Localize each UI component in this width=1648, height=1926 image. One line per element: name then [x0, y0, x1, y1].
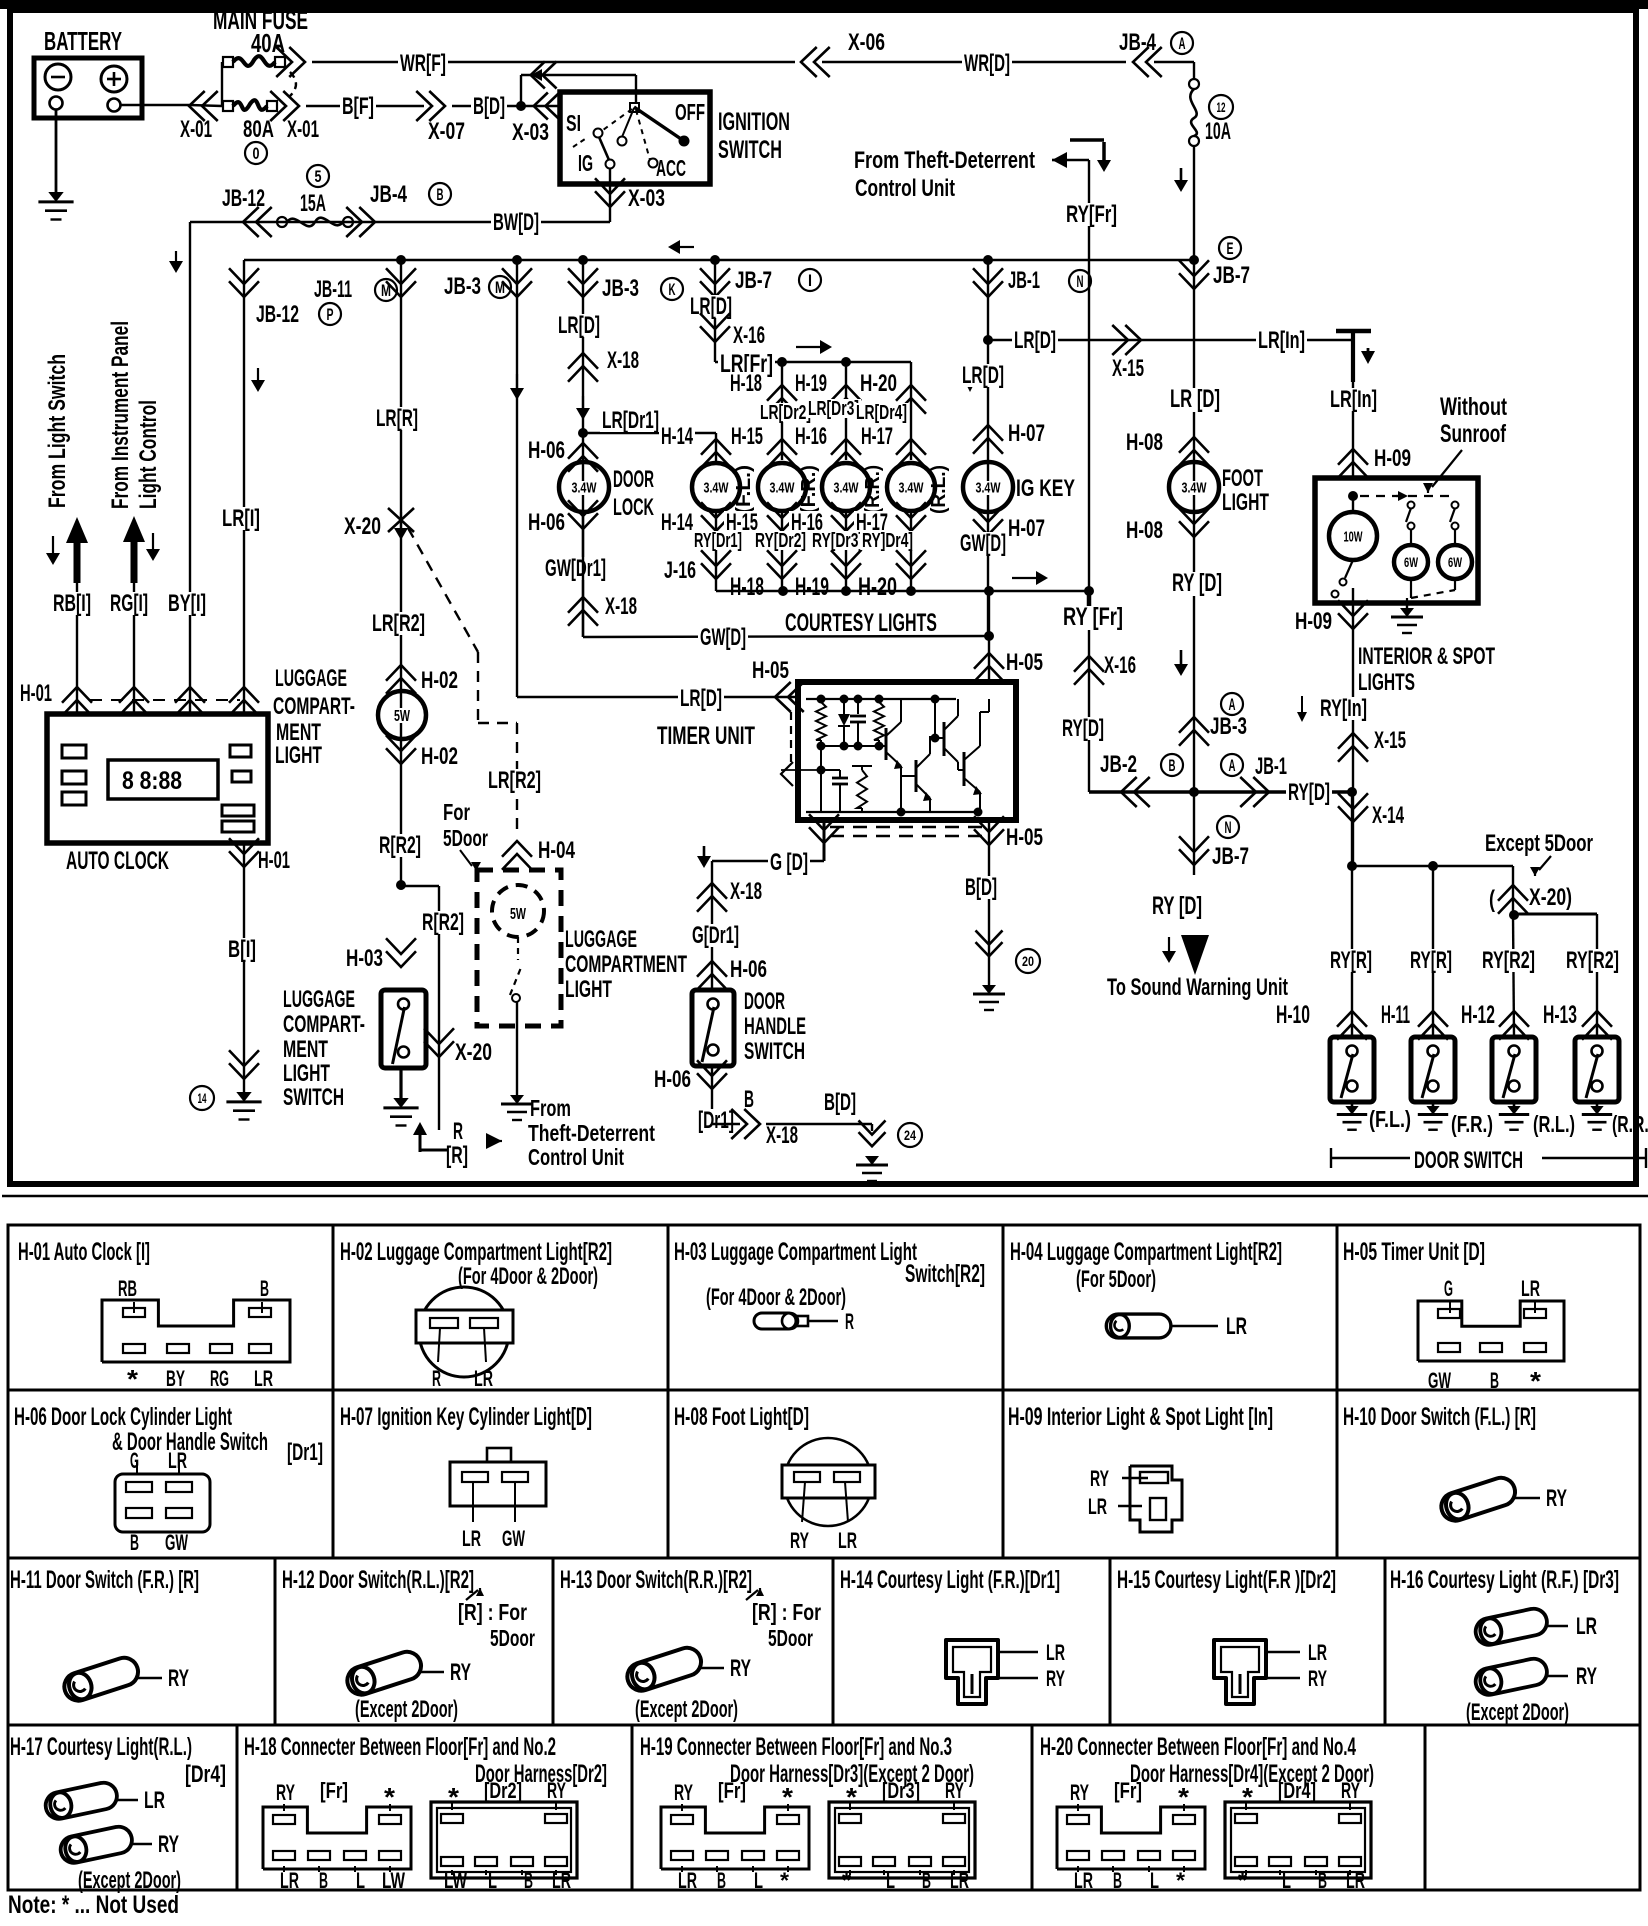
door switch RR [1575, 1037, 1619, 1102]
svg-text:LR: LR [1088, 1494, 1107, 1519]
svg-text:5Door: 5Door [443, 825, 488, 851]
wire WR[D] [822, 61, 1126, 63]
svg-text:RY [Fr]: RY [Fr] [1063, 603, 1123, 631]
svg-text:COMPART-: COMPART- [283, 1011, 365, 1038]
svg-text:G [D]: G [D] [770, 849, 808, 876]
svg-text:0: 0 [253, 144, 260, 163]
connector JB-7 I chevron [700, 281, 730, 297]
svg-text:LOCK: LOCK [613, 494, 654, 521]
svg-text:LW: LW [382, 1868, 405, 1893]
svg-text:RY: RY [276, 1780, 295, 1805]
svg-text:GW: GW [502, 1526, 525, 1551]
labels RB RG BY [51, 592, 93, 615]
fuse 40A [223, 57, 233, 67]
connector X-15 chevron [1338, 733, 1368, 749]
bulb IG KEY 3.4W [963, 462, 1013, 512]
svg-text:*: * [448, 1782, 460, 1812]
connector H-08 chevron [1179, 437, 1209, 453]
svg-text:H-13: H-13 [1543, 1001, 1577, 1029]
svg-text:BW[D]: BW[D] [493, 209, 539, 236]
svg-text:H-16: H-16 [795, 423, 827, 450]
svg-text:H-05 Timer Unit [D]: H-05 Timer Unit [D] [1343, 1238, 1485, 1266]
svg-text:[Fr]: [Fr] [1114, 1778, 1142, 1803]
svg-text:GW: GW [165, 1530, 188, 1555]
svg-text:H-08 Foot Light[D]: H-08 Foot Light[D] [674, 1403, 809, 1431]
wires down to switches [1351, 866, 1353, 1037]
wire hook into ignition top [520, 75, 522, 106]
svg-text:B: B [524, 1868, 533, 1893]
svg-text:LR: LR [950, 1868, 969, 1893]
wire LR[D] to timer [517, 696, 770, 698]
svg-text:I: I [808, 271, 812, 290]
bulb 5W dashed [492, 885, 544, 937]
svg-text:COURTESY LIGHTS: COURTESY LIGHTS [785, 609, 937, 637]
wire BW[D] [190, 221, 610, 223]
svg-text:LR: LR [1308, 1640, 1327, 1665]
svg-text:LIGHT: LIGHT [275, 742, 322, 769]
svg-text:*: * [384, 1782, 396, 1812]
svg-text:RY: RY [168, 1665, 189, 1692]
svg-text:LR[D]: LR[D] [680, 685, 722, 712]
ground auto clock [236, 1092, 251, 1102]
svg-text:LW: LW [444, 1868, 467, 1893]
connector X-18 chevron right [712, 1123, 740, 1125]
svg-text:RY: RY [547, 1778, 566, 1803]
svg-text:B[D]: B[D] [473, 93, 505, 120]
svg-text:LR[Dr1]: LR[Dr1] [602, 407, 659, 434]
svg-text:COMPARTMENT: COMPARTMENT [565, 951, 687, 978]
connector H-01 bottom chevron [229, 851, 259, 867]
svg-text:40A: 40A [251, 28, 285, 58]
svg-text:24: 24 [904, 1127, 916, 1143]
svg-text:H-02: H-02 [421, 667, 458, 694]
svg-text:M: M [495, 278, 505, 297]
svg-text:L: L [1282, 1868, 1291, 1893]
connector H-07 chevron down [973, 519, 1003, 535]
connector JB-1 N chevron [973, 281, 1003, 297]
svg-text:14: 14 [198, 1090, 207, 1106]
svg-text:RB[I]: RB[I] [53, 590, 91, 617]
svg-text:Switch[R2]: Switch[R2] [905, 1260, 985, 1288]
connector X-01 upper chevron [289, 47, 305, 77]
svg-text:B: B [1169, 756, 1176, 775]
svg-text:X-03: X-03 [512, 119, 549, 146]
svg-text:*: * [1176, 1868, 1185, 1893]
auto clock U-CLK [47, 714, 268, 843]
svg-text:From Instrument Panel: From Instrument Panel [107, 321, 134, 509]
arrow feed up RB [66, 517, 88, 543]
svg-text:3.4W: 3.4W [572, 479, 598, 496]
svg-text:H-09: H-09 [1295, 608, 1332, 635]
wire LR[D] to X-15 [988, 339, 1352, 341]
svg-text:JB-3: JB-3 [1210, 713, 1247, 740]
svg-text:COMPART-: COMPART- [273, 693, 355, 720]
svg-text:H-05: H-05 [1006, 824, 1043, 851]
svg-text:H-19: H-19 [795, 370, 827, 397]
bulb foot light 3.4W [1169, 462, 1219, 512]
svg-text:SWITCH: SWITCH [744, 1038, 805, 1065]
connector X-16 chevron [700, 326, 730, 342]
svg-text:A: A [1229, 756, 1236, 775]
svg-text:*: * [1178, 1782, 1190, 1812]
svg-text:LR[Dr2]: LR[Dr2] [760, 402, 811, 424]
svg-text:H-05: H-05 [752, 657, 789, 684]
svg-text:H-20: H-20 [858, 573, 897, 601]
svg-text:LR: LR [1074, 1868, 1093, 1893]
svg-text:LR: LR [144, 1787, 165, 1814]
connectors H-15 H-16 H-17 chevrons [701, 439, 731, 455]
bulb courtesy FR [758, 463, 806, 511]
wire LR[Dr1] branch [583, 432, 716, 434]
svg-text:LR: LR [168, 1448, 187, 1473]
connector H-02 chevron down [386, 748, 416, 764]
wire GW down [582, 512, 584, 637]
svg-text:Sunroof: Sunroof [1440, 420, 1506, 448]
circled E [1219, 237, 1241, 259]
connectors H-18 H-19 H-20 chevrons top [767, 385, 797, 401]
arrow left floating [679, 246, 694, 248]
svg-text:H-07: H-07 [1008, 515, 1045, 542]
svg-text:[R] : For: [R] : For [458, 1599, 527, 1625]
svg-text:To Sound Warning Unit: To Sound Warning Unit [1107, 974, 1288, 1001]
svg-text:GW[D]: GW[D] [960, 530, 1006, 557]
svg-text:*: * [1530, 1366, 1542, 1396]
H-03 inline switch icon [754, 1313, 808, 1329]
svg-text:Without: Without [1440, 393, 1507, 421]
svg-text:B[D]: B[D] [965, 874, 997, 901]
svg-text:R: R [432, 1366, 441, 1391]
svg-text:H-06 Door Lock Cylinder Light: H-06 Door Lock Cylinder Light [14, 1403, 232, 1431]
svg-text:G: G [1444, 1276, 1453, 1301]
chevrons J-16 H-18 H-19 H-20 [701, 563, 731, 579]
svg-text:AUTO CLOCK: AUTO CLOCK [66, 847, 169, 875]
wire to 4th door switch [1514, 913, 1597, 916]
border frame [10, 10, 1636, 1184]
wire below door handle switch [711, 1066, 713, 1125]
svg-text:DOOR SWITCH: DOOR SWITCH [1414, 1147, 1523, 1174]
svg-text:[Dr2]: [Dr2] [484, 1778, 522, 1803]
svg-text:J-16: J-16 [664, 557, 696, 584]
internal dashed rail [1348, 491, 1358, 501]
connectors H-10..H-13 chevrons [1337, 1011, 1367, 1027]
svg-text:Light Control: Light Control [135, 400, 162, 509]
svg-text:[Fr]: [Fr] [320, 1778, 348, 1803]
svg-text:A: A [1179, 34, 1186, 53]
wire JB-12 drop [189, 222, 191, 714]
ground battery [48, 192, 63, 202]
svg-text:Theft-Deterrent: Theft-Deterrent [528, 1120, 655, 1146]
svg-text:RY: RY [1308, 1666, 1327, 1691]
svg-text:RY: RY [1576, 1663, 1597, 1690]
wire branch to theft unit [401, 885, 439, 888]
svg-text:B: B [130, 1530, 139, 1555]
svg-text:RY[R]: RY[R] [1330, 947, 1372, 974]
label LR[R2] [370, 612, 427, 635]
svg-text:RY[Dr1]: RY[Dr1] [694, 530, 742, 552]
svg-text:H-14: H-14 [661, 509, 693, 536]
connector X-16 chevron [1074, 656, 1104, 672]
bulb courtesy FL [692, 463, 740, 511]
wire WR[F] [312, 61, 795, 63]
svg-text:*: * [1242, 1782, 1254, 1812]
DOOR SWITCH bracket [1331, 1157, 1410, 1159]
svg-text:(Except 2Door): (Except 2Door) [355, 1696, 458, 1723]
arrow under JB-12 [175, 251, 177, 262]
svg-text:N: N [1225, 818, 1232, 837]
svg-text:X-20): X-20) [1529, 884, 1572, 911]
svg-text:(Except 2Door): (Except 2Door) [78, 1867, 181, 1894]
svg-text:RY [D]: RY [D] [1152, 892, 1202, 920]
svg-text:3.4W: 3.4W [770, 479, 796, 496]
svg-text:H-01 Auto Clock [I]: H-01 Auto Clock [I] [18, 1238, 150, 1266]
svg-text:B[I]: B[I] [228, 936, 256, 963]
timer left input chevron [770, 696, 798, 698]
svg-text:(F.R.): (F.R.) [1451, 1111, 1493, 1137]
svg-text:H-10: H-10 [1276, 1001, 1310, 1029]
svg-text:SWITCH: SWITCH [283, 1084, 344, 1111]
svg-text:(Except 2Door): (Except 2Door) [1466, 1699, 1569, 1726]
luggage compartment light switch [381, 990, 426, 1068]
svg-text:JB-11: JB-11 [314, 276, 352, 303]
svg-text:From: From [530, 1095, 571, 1121]
svg-text:LR: LR [280, 1868, 299, 1893]
svg-text:X-07: X-07 [428, 118, 465, 145]
ground luggage switch [393, 1098, 408, 1108]
svg-text:80A: 80A [243, 116, 274, 143]
svg-text:JB-4: JB-4 [1119, 29, 1156, 56]
svg-text:H-12: H-12 [1461, 1001, 1495, 1029]
svg-text:L: L [886, 1868, 895, 1893]
svg-text:RY[R2]: RY[R2] [1566, 947, 1619, 974]
svg-text:(R.L.): (R.L.) [1533, 1111, 1575, 1137]
svg-text:X-01: X-01 [180, 116, 212, 143]
svg-text:*: * [1238, 1868, 1247, 1893]
svg-text:X-16: X-16 [733, 322, 765, 349]
svg-text:3.4W: 3.4W [704, 479, 730, 496]
svg-text:LIGHT: LIGHT [283, 1060, 330, 1087]
svg-text:(For 4Door & 2Door): (For 4Door & 2Door) [706, 1284, 846, 1311]
svg-text:5Door: 5Door [768, 1625, 813, 1651]
connector H-04 chevron [502, 841, 532, 857]
fuse 10A [1189, 79, 1199, 89]
svg-text:12: 12 [1217, 99, 1226, 115]
dashed branch to 5door light [408, 528, 478, 652]
svg-text:JB-2: JB-2 [1100, 751, 1137, 778]
svg-text:[Fr]: [Fr] [718, 1778, 746, 1803]
chevron + ground [976, 942, 1003, 956]
svg-text:JB-12: JB-12 [256, 301, 299, 328]
wire door switch bus [1351, 792, 1353, 866]
svg-text:TIMER UNIT: TIMER UNIT [657, 722, 755, 750]
svg-text:LUGGAGE: LUGGAGE [275, 665, 347, 692]
svg-text:H-04: H-04 [538, 837, 575, 864]
svg-text:JB-7: JB-7 [1213, 262, 1250, 289]
connector X-18 chevron down [568, 597, 598, 613]
connector JB-1 A chevron [1253, 777, 1269, 807]
connector JB-3 K chevron [568, 281, 598, 297]
connector H-02 chevron up [386, 665, 416, 681]
timer internals [806, 698, 956, 700]
svg-text:L: L [754, 1868, 763, 1893]
svg-text:RY[D]: RY[D] [1288, 779, 1330, 806]
bulb courtesy RL [887, 463, 935, 511]
svg-text:H-05: H-05 [1006, 649, 1043, 676]
svg-text:X-20: X-20 [344, 513, 381, 540]
svg-text:WR[D]: WR[D] [964, 50, 1010, 77]
svg-text:H-07 Ignition Key Cylinder Lig: H-07 Ignition Key Cylinder Light[D] [340, 1403, 592, 1431]
svg-text:LR: LR [474, 1366, 493, 1391]
wire JB-11 branch [400, 260, 402, 885]
svg-text:6W: 6W [1448, 554, 1463, 570]
svg-text:[R]: [R] [446, 1142, 468, 1169]
connector X-01 lower left chevron [189, 91, 205, 121]
svg-text:H-04 Luggage Compartment Light: H-04 Luggage Compartment Light[R2] [1010, 1238, 1282, 1266]
svg-text:(R.R.): (R.R.) [1612, 1111, 1648, 1137]
svg-text:LR[In]: LR[In] [1330, 386, 1377, 413]
svg-text:RY: RY [790, 1528, 809, 1553]
wire battery negative to ground [55, 109, 58, 192]
svg-text:B: B [717, 1868, 726, 1893]
svg-text:(For 5Door): (For 5Door) [1076, 1266, 1156, 1293]
connector X-03 chevrons [531, 62, 545, 89]
svg-text:DOOR: DOOR [613, 466, 654, 493]
svg-text:H-09 Interior Light & Spot Lig: H-09 Interior Light & Spot Light [In] [1008, 1403, 1273, 1431]
svg-text:Except 5Door: Except 5Door [1485, 830, 1593, 857]
svg-text:B: B [437, 185, 444, 204]
node B[D] junction [516, 101, 526, 111]
wire main bus LR [244, 259, 1194, 262]
svg-text:(R.L.): (R.L.) [928, 465, 950, 514]
arrow feed up RG [123, 516, 145, 542]
svg-text:8 8:88: 8 8:88 [122, 767, 182, 795]
svg-text:LR: LR [1521, 1276, 1540, 1301]
connector X-03 bottom chevron [595, 191, 625, 207]
connector H-07 chevron [973, 425, 1003, 441]
node bus junctions [396, 255, 406, 265]
svg-text:RY]Dr4]: RY]Dr4] [862, 530, 913, 552]
svg-text:GW[D]: GW[D] [700, 624, 746, 651]
connector H-06 chevron down [568, 513, 598, 529]
ignition contacts [630, 103, 639, 112]
svg-text:R: R [453, 1118, 463, 1145]
svg-text:H-14 Courtesy Light (F.R.)[Dr1: H-14 Courtesy Light (F.R.)[Dr1] [840, 1566, 1060, 1594]
svg-text:LIGHTS: LIGHTS [1358, 669, 1415, 696]
wire JB-3 M branch [516, 260, 518, 697]
svg-text:LR: LR [1576, 1613, 1597, 1640]
svg-text:M: M [381, 281, 391, 300]
svg-text:R: R [845, 1309, 854, 1334]
svg-text:IGNITION: IGNITION [718, 108, 790, 136]
svg-text:B: B [1318, 1868, 1327, 1893]
svg-text:LR: LR [838, 1528, 857, 1553]
svg-text:RY: RY [674, 1780, 693, 1805]
connector H-05 chevron left [775, 682, 791, 712]
svg-text:H-14: H-14 [661, 423, 693, 450]
connector JB-3 M chevron [502, 281, 532, 297]
svg-text:X-20: X-20 [455, 1039, 492, 1066]
svg-text:(Except 2Door): (Except 2Door) [635, 1696, 738, 1723]
svg-text:3.4W: 3.4W [834, 479, 860, 496]
svg-text:B: B [1113, 1868, 1122, 1893]
svg-text:B: B [1490, 1368, 1499, 1393]
wire JB-7 I branch [714, 260, 716, 362]
svg-text:DOOR: DOOR [744, 988, 785, 1015]
svg-text:15A: 15A [300, 190, 326, 217]
svg-text:H-11 Door Switch (F.R.) [R]: H-11 Door Switch (F.R.) [R] [10, 1566, 199, 1594]
svg-text:*: * [846, 1782, 858, 1812]
bulb 10W [1352, 496, 1354, 512]
connector H-06 chevron [568, 443, 598, 459]
svg-text:RY[In]: RY[In] [1320, 695, 1367, 722]
wire JB-3 K branch [582, 260, 584, 637]
svg-text:X-06: X-06 [848, 29, 885, 56]
svg-text:H-06: H-06 [730, 956, 767, 983]
svg-text:[Dr3]: [Dr3] [882, 1778, 920, 1803]
svg-text:LIGHT: LIGHT [565, 976, 612, 1003]
connector X-15 chevron [1125, 325, 1141, 355]
svg-text:(: ( [1489, 886, 1495, 913]
svg-text:H-06: H-06 [654, 1066, 691, 1093]
connector H-05 chevron below timer [974, 829, 1004, 845]
wire to 40A fuse [221, 62, 223, 106]
svg-text:H-03 Luggage Compartment Light: H-03 Luggage Compartment Light [674, 1238, 917, 1266]
wire G[D] down to door handle switch [711, 861, 713, 990]
connector JB-7 chevron [1179, 273, 1209, 289]
wire LR[In] corner [1336, 329, 1371, 334]
connector X-18 chevron [568, 353, 598, 369]
arrow stub down right [152, 533, 154, 550]
switch + bulb 6W left [1408, 502, 1415, 509]
svg-text:X-18: X-18 [730, 878, 762, 905]
bulb 5W luggage [378, 691, 426, 739]
svg-text:RY[Dr2]: RY[Dr2] [755, 530, 806, 552]
connector X-14 chevron [1338, 806, 1368, 822]
connector JB-12 P chevron [229, 281, 259, 297]
svg-text:X-18: X-18 [605, 593, 637, 620]
svg-text:H-18 Connecter Between Floor[F: H-18 Connecter Between Floor[Fr] and No.… [244, 1733, 556, 1761]
svg-text:Control Unit: Control Unit [528, 1144, 624, 1170]
svg-text:LR: LR [462, 1526, 481, 1551]
svg-text:RY[R]: RY[R] [1410, 947, 1452, 974]
svg-text:H-12 Door Switch(R.L.)[R2]: H-12 Door Switch(R.L.)[R2] [282, 1566, 474, 1594]
svg-text:H-06: H-06 [528, 509, 565, 536]
svg-text:H-19 Connecter Between Floor[F: H-19 Connecter Between Floor[Fr] and No.… [640, 1733, 952, 1761]
wire JB-1 N branch [987, 260, 989, 636]
connector H-05 chevron above timer [988, 591, 990, 682]
ground interior [1406, 603, 1408, 608]
svg-text:From Theft-Deterrent: From Theft-Deterrent [854, 147, 1035, 174]
arrows to sound warning [1168, 937, 1170, 952]
svg-text:BATTERY: BATTERY [44, 26, 122, 56]
svg-text:LR: LR [678, 1868, 697, 1893]
svg-text:BY: BY [166, 1366, 185, 1391]
svg-text:LUGGAGE: LUGGAGE [565, 926, 637, 953]
connector JB-3 A chevron [1221, 693, 1243, 715]
svg-text:LUGGAGE: LUGGAGE [283, 986, 355, 1013]
svg-text:OFF: OFF [675, 99, 705, 125]
svg-text:JB-7: JB-7 [1212, 843, 1249, 870]
wire below interior box [1352, 603, 1354, 866]
svg-text:H-02 Luggage Compartment Light: H-02 Luggage Compartment Light[R2] [340, 1238, 612, 1266]
svg-text:H-08: H-08 [1126, 517, 1163, 544]
svg-text:RY: RY [158, 1831, 179, 1858]
svg-text:FOOT: FOOT [1222, 465, 1263, 492]
svg-text:[Dr4]: [Dr4] [1278, 1778, 1316, 1803]
svg-text:[R] : For: [R] : For [752, 1599, 821, 1625]
svg-text:H-01: H-01 [20, 680, 52, 707]
svg-text:H-06: H-06 [528, 437, 565, 464]
svg-text:3.4W: 3.4W [899, 479, 925, 496]
